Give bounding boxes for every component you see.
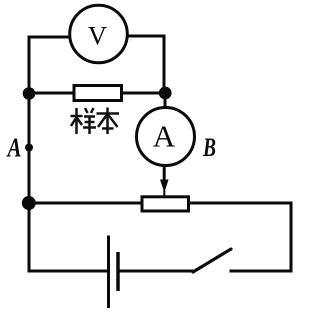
样 right part 羊 bbox=[85, 108, 88, 113]
wire rheostat left lead bbox=[29, 202, 143, 205]
battery cell bbox=[109, 236, 119, 309]
wire ammeter bottom lead bbox=[163, 164, 166, 181]
wire ammeter top lead bbox=[164, 96, 167, 109]
wire switch contact to right corner bbox=[231, 270, 291, 273]
svg-text:B: B bbox=[202, 133, 216, 162]
junction dot (right, above ammeter) bbox=[159, 87, 172, 100]
junction dot (left, at rheostat row) bbox=[22, 196, 36, 210]
wire voltmeter right lead bbox=[127, 35, 164, 38]
wire resistor left lead bbox=[29, 92, 74, 95]
label 样本 (sample) drawn as strokes bbox=[71, 108, 120, 135]
arrowhead into rheostat bbox=[160, 180, 169, 193]
wire resistor right lead bbox=[119, 92, 164, 95]
wire rheostat right lead bbox=[188, 202, 291, 205]
wire top-left horizontal bbox=[29, 36, 72, 39]
svg-text:V: V bbox=[88, 21, 107, 51]
switch S1 blade bbox=[193, 249, 231, 272]
wire right vertical bbox=[290, 203, 293, 271]
node A terminal dot bbox=[25, 144, 33, 152]
rheostat R1 bbox=[142, 197, 189, 211]
wire right top vertical bbox=[163, 36, 166, 90]
resistor sample 样本 bbox=[74, 86, 122, 101]
wire battery to switch bbox=[119, 270, 193, 273]
wire left vertical bbox=[28, 37, 31, 271]
ammeter A1 bbox=[137, 108, 195, 166]
junction dot (left, at resistor row) bbox=[23, 87, 36, 100]
wire bottom rail left (to battery) bbox=[29, 270, 107, 273]
voltmeter V1 bbox=[70, 5, 128, 63]
样 left radical 木 bbox=[75, 108, 78, 134]
wire bottom-left vertical to rail bbox=[28, 203, 31, 271]
battery short plate (-) bbox=[116, 252, 120, 291]
svg-text:A: A bbox=[6, 133, 22, 163]
svg-text:A: A bbox=[153, 119, 176, 154]
本 bbox=[97, 112, 120, 115]
battery long plate (+) bbox=[107, 236, 110, 309]
